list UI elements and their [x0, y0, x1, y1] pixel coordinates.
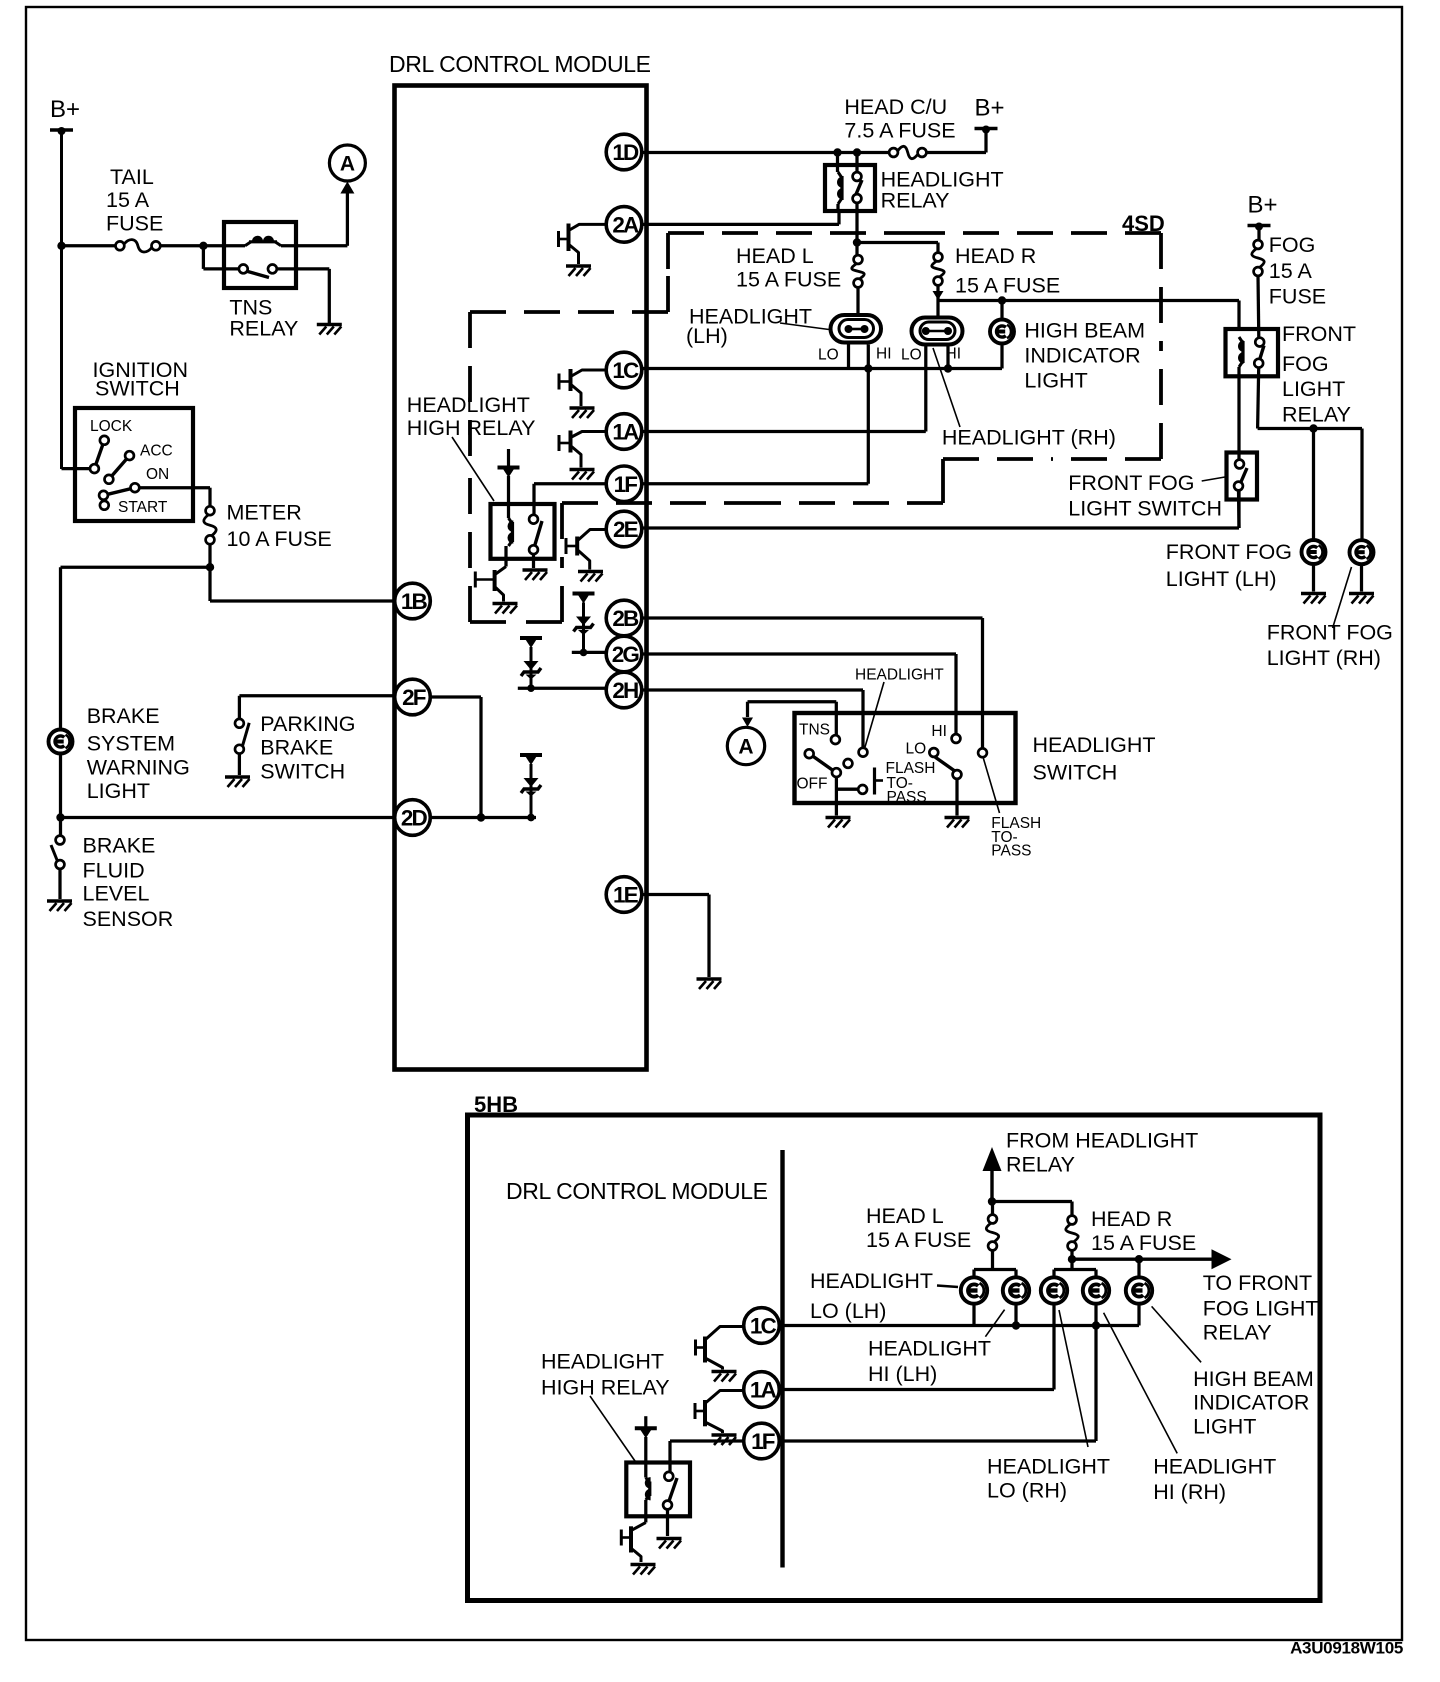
svg-text:INDICATOR: INDICATOR — [1193, 1391, 1309, 1415]
svg-text:ACC: ACC — [140, 443, 173, 460]
svg-text:1C: 1C — [750, 1314, 777, 1339]
svg-text:FOG: FOG — [1269, 233, 1316, 257]
svg-text:HEADLIGHT: HEADLIGHT — [1153, 1455, 1276, 1479]
svg-text:LO (RH): LO (RH) — [987, 1479, 1067, 1503]
svg-text:B+: B+ — [50, 96, 80, 123]
svg-text:HIGH RELAY: HIGH RELAY — [541, 1376, 670, 1400]
svg-text:HI (LH): HI (LH) — [868, 1362, 937, 1386]
svg-text:LIGHT: LIGHT — [1024, 369, 1087, 393]
svg-text:SENSOR: SENSOR — [83, 907, 174, 931]
svg-text:2G: 2G — [612, 642, 640, 667]
svg-text:HEADLIGHT: HEADLIGHT — [1033, 733, 1156, 757]
svg-text:15 A FUSE: 15 A FUSE — [866, 1228, 971, 1252]
svg-text:BRAKE: BRAKE — [260, 736, 333, 760]
svg-text:HEAD R: HEAD R — [1091, 1207, 1172, 1231]
svg-text:DRL CONTROL MODULE: DRL CONTROL MODULE — [389, 51, 651, 77]
svg-text:4SD: 4SD — [1122, 211, 1165, 236]
svg-text:B+: B+ — [1248, 192, 1278, 219]
svg-text:DRL CONTROL MODULE: DRL CONTROL MODULE — [506, 1178, 768, 1204]
svg-text:2D: 2D — [401, 806, 428, 831]
svg-text:HIGH BEAM: HIGH BEAM — [1024, 319, 1145, 343]
svg-text:PASS: PASS — [991, 843, 1031, 860]
svg-text:LIGHT: LIGHT — [1282, 377, 1345, 401]
svg-text:1D: 1D — [612, 140, 639, 165]
svg-text:LEVEL: LEVEL — [83, 882, 150, 906]
svg-text:OFF: OFF — [797, 776, 828, 793]
svg-text:ON: ON — [146, 466, 169, 483]
svg-text:LIGHT: LIGHT — [87, 779, 150, 803]
svg-text:LO: LO — [818, 347, 839, 364]
svg-text:HEADLIGHT: HEADLIGHT — [868, 1337, 991, 1361]
svg-text:LIGHT (LH): LIGHT (LH) — [1166, 567, 1277, 591]
svg-text:LIGHT (RH): LIGHT (RH) — [1267, 646, 1381, 670]
svg-text:A3U0918W105: A3U0918W105 — [1290, 1639, 1403, 1658]
svg-text:LOCK: LOCK — [90, 418, 133, 435]
svg-text:HEAD R: HEAD R — [955, 244, 1036, 268]
svg-text:FOG LIGHT: FOG LIGHT — [1203, 1297, 1319, 1321]
svg-text:HIGH RELAY: HIGH RELAY — [407, 416, 536, 440]
svg-text:15 A: 15 A — [106, 188, 150, 212]
svg-text:TAIL: TAIL — [110, 165, 154, 189]
svg-text:2F: 2F — [402, 685, 426, 710]
svg-text:7.5 A FUSE: 7.5 A FUSE — [844, 119, 955, 143]
svg-text:PASS: PASS — [887, 789, 927, 806]
svg-text:RELAY: RELAY — [881, 189, 950, 213]
svg-text:LO: LO — [906, 741, 927, 758]
svg-text:B+: B+ — [975, 95, 1005, 122]
svg-text:RELAY: RELAY — [1282, 403, 1351, 427]
svg-text:15 A FUSE: 15 A FUSE — [1091, 1231, 1196, 1255]
svg-text:BRAKE: BRAKE — [83, 834, 156, 858]
svg-text:15 A FUSE: 15 A FUSE — [736, 268, 841, 292]
svg-text:SWITCH: SWITCH — [260, 760, 345, 784]
svg-text:TNS: TNS — [799, 722, 830, 739]
svg-text:10 A FUSE: 10 A FUSE — [227, 527, 332, 551]
svg-text:2E: 2E — [613, 517, 639, 542]
svg-text:2A: 2A — [612, 213, 639, 238]
svg-text:2B: 2B — [612, 606, 639, 631]
svg-text:HEADLIGHT: HEADLIGHT — [407, 393, 530, 417]
svg-text:RELAY: RELAY — [1006, 1153, 1075, 1177]
svg-text:PARKING: PARKING — [260, 712, 355, 736]
svg-text:1A: 1A — [612, 420, 639, 445]
svg-text:15 A: 15 A — [1269, 259, 1313, 283]
svg-text:START: START — [118, 499, 168, 516]
svg-text:LO: LO — [901, 347, 922, 364]
svg-text:HEAD L: HEAD L — [736, 244, 814, 268]
svg-text:A: A — [738, 736, 753, 759]
svg-text:HI: HI — [876, 346, 892, 363]
svg-text:HEADLIGHT: HEADLIGHT — [810, 1269, 933, 1293]
svg-text:LIGHT: LIGHT — [1193, 1415, 1256, 1439]
svg-text:HEADLIGHT: HEADLIGHT — [987, 1455, 1110, 1479]
svg-text:HI (RH): HI (RH) — [1153, 1480, 1226, 1504]
svg-text:1F: 1F — [751, 1429, 775, 1454]
svg-text:SWITCH: SWITCH — [1033, 761, 1118, 785]
svg-text:1F: 1F — [614, 472, 638, 497]
svg-text:RELAY: RELAY — [229, 317, 298, 341]
svg-text:FOG: FOG — [1282, 352, 1329, 376]
svg-text:HIGH BEAM: HIGH BEAM — [1193, 1367, 1314, 1391]
svg-text:FUSE: FUSE — [106, 212, 163, 236]
svg-text:1C: 1C — [612, 358, 639, 383]
svg-text:BRAKE: BRAKE — [87, 704, 160, 728]
svg-text:SWITCH: SWITCH — [95, 377, 180, 401]
svg-text:A: A — [340, 153, 355, 176]
svg-text:METER: METER — [227, 501, 302, 525]
svg-text:WARNING: WARNING — [87, 756, 190, 780]
svg-text:LIGHT SWITCH: LIGHT SWITCH — [1068, 497, 1222, 521]
svg-text:RELAY: RELAY — [1203, 1321, 1272, 1345]
svg-text:HEADLIGHT (RH): HEADLIGHT (RH) — [942, 426, 1116, 450]
svg-text:HEAD L: HEAD L — [866, 1204, 944, 1228]
svg-text:FLUID: FLUID — [83, 859, 145, 883]
svg-text:FRONT FOG: FRONT FOG — [1068, 471, 1194, 495]
svg-text:HEADLIGHT: HEADLIGHT — [855, 667, 944, 684]
svg-text:SYSTEM: SYSTEM — [87, 732, 175, 756]
svg-text:LO (LH): LO (LH) — [810, 1299, 886, 1323]
svg-text:1E: 1E — [613, 883, 639, 908]
svg-text:1A: 1A — [750, 1378, 777, 1403]
svg-text:FRONT: FRONT — [1282, 322, 1356, 346]
svg-text:2H: 2H — [612, 678, 638, 703]
svg-text:FROM HEADLIGHT: FROM HEADLIGHT — [1006, 1129, 1198, 1153]
svg-text:(LH): (LH) — [686, 324, 728, 348]
svg-text:TO FRONT: TO FRONT — [1203, 1271, 1312, 1295]
svg-text:INDICATOR: INDICATOR — [1024, 344, 1140, 368]
svg-text:15 A FUSE: 15 A FUSE — [955, 274, 1060, 298]
svg-text:HEADLIGHT: HEADLIGHT — [541, 1349, 664, 1373]
svg-text:FRONT FOG: FRONT FOG — [1166, 540, 1292, 564]
svg-text:FRONT FOG: FRONT FOG — [1267, 621, 1393, 645]
svg-text:FUSE: FUSE — [1269, 285, 1326, 309]
svg-text:HI: HI — [931, 723, 947, 740]
svg-text:1B: 1B — [401, 589, 428, 614]
svg-text:HEAD C/U: HEAD C/U — [844, 95, 947, 119]
